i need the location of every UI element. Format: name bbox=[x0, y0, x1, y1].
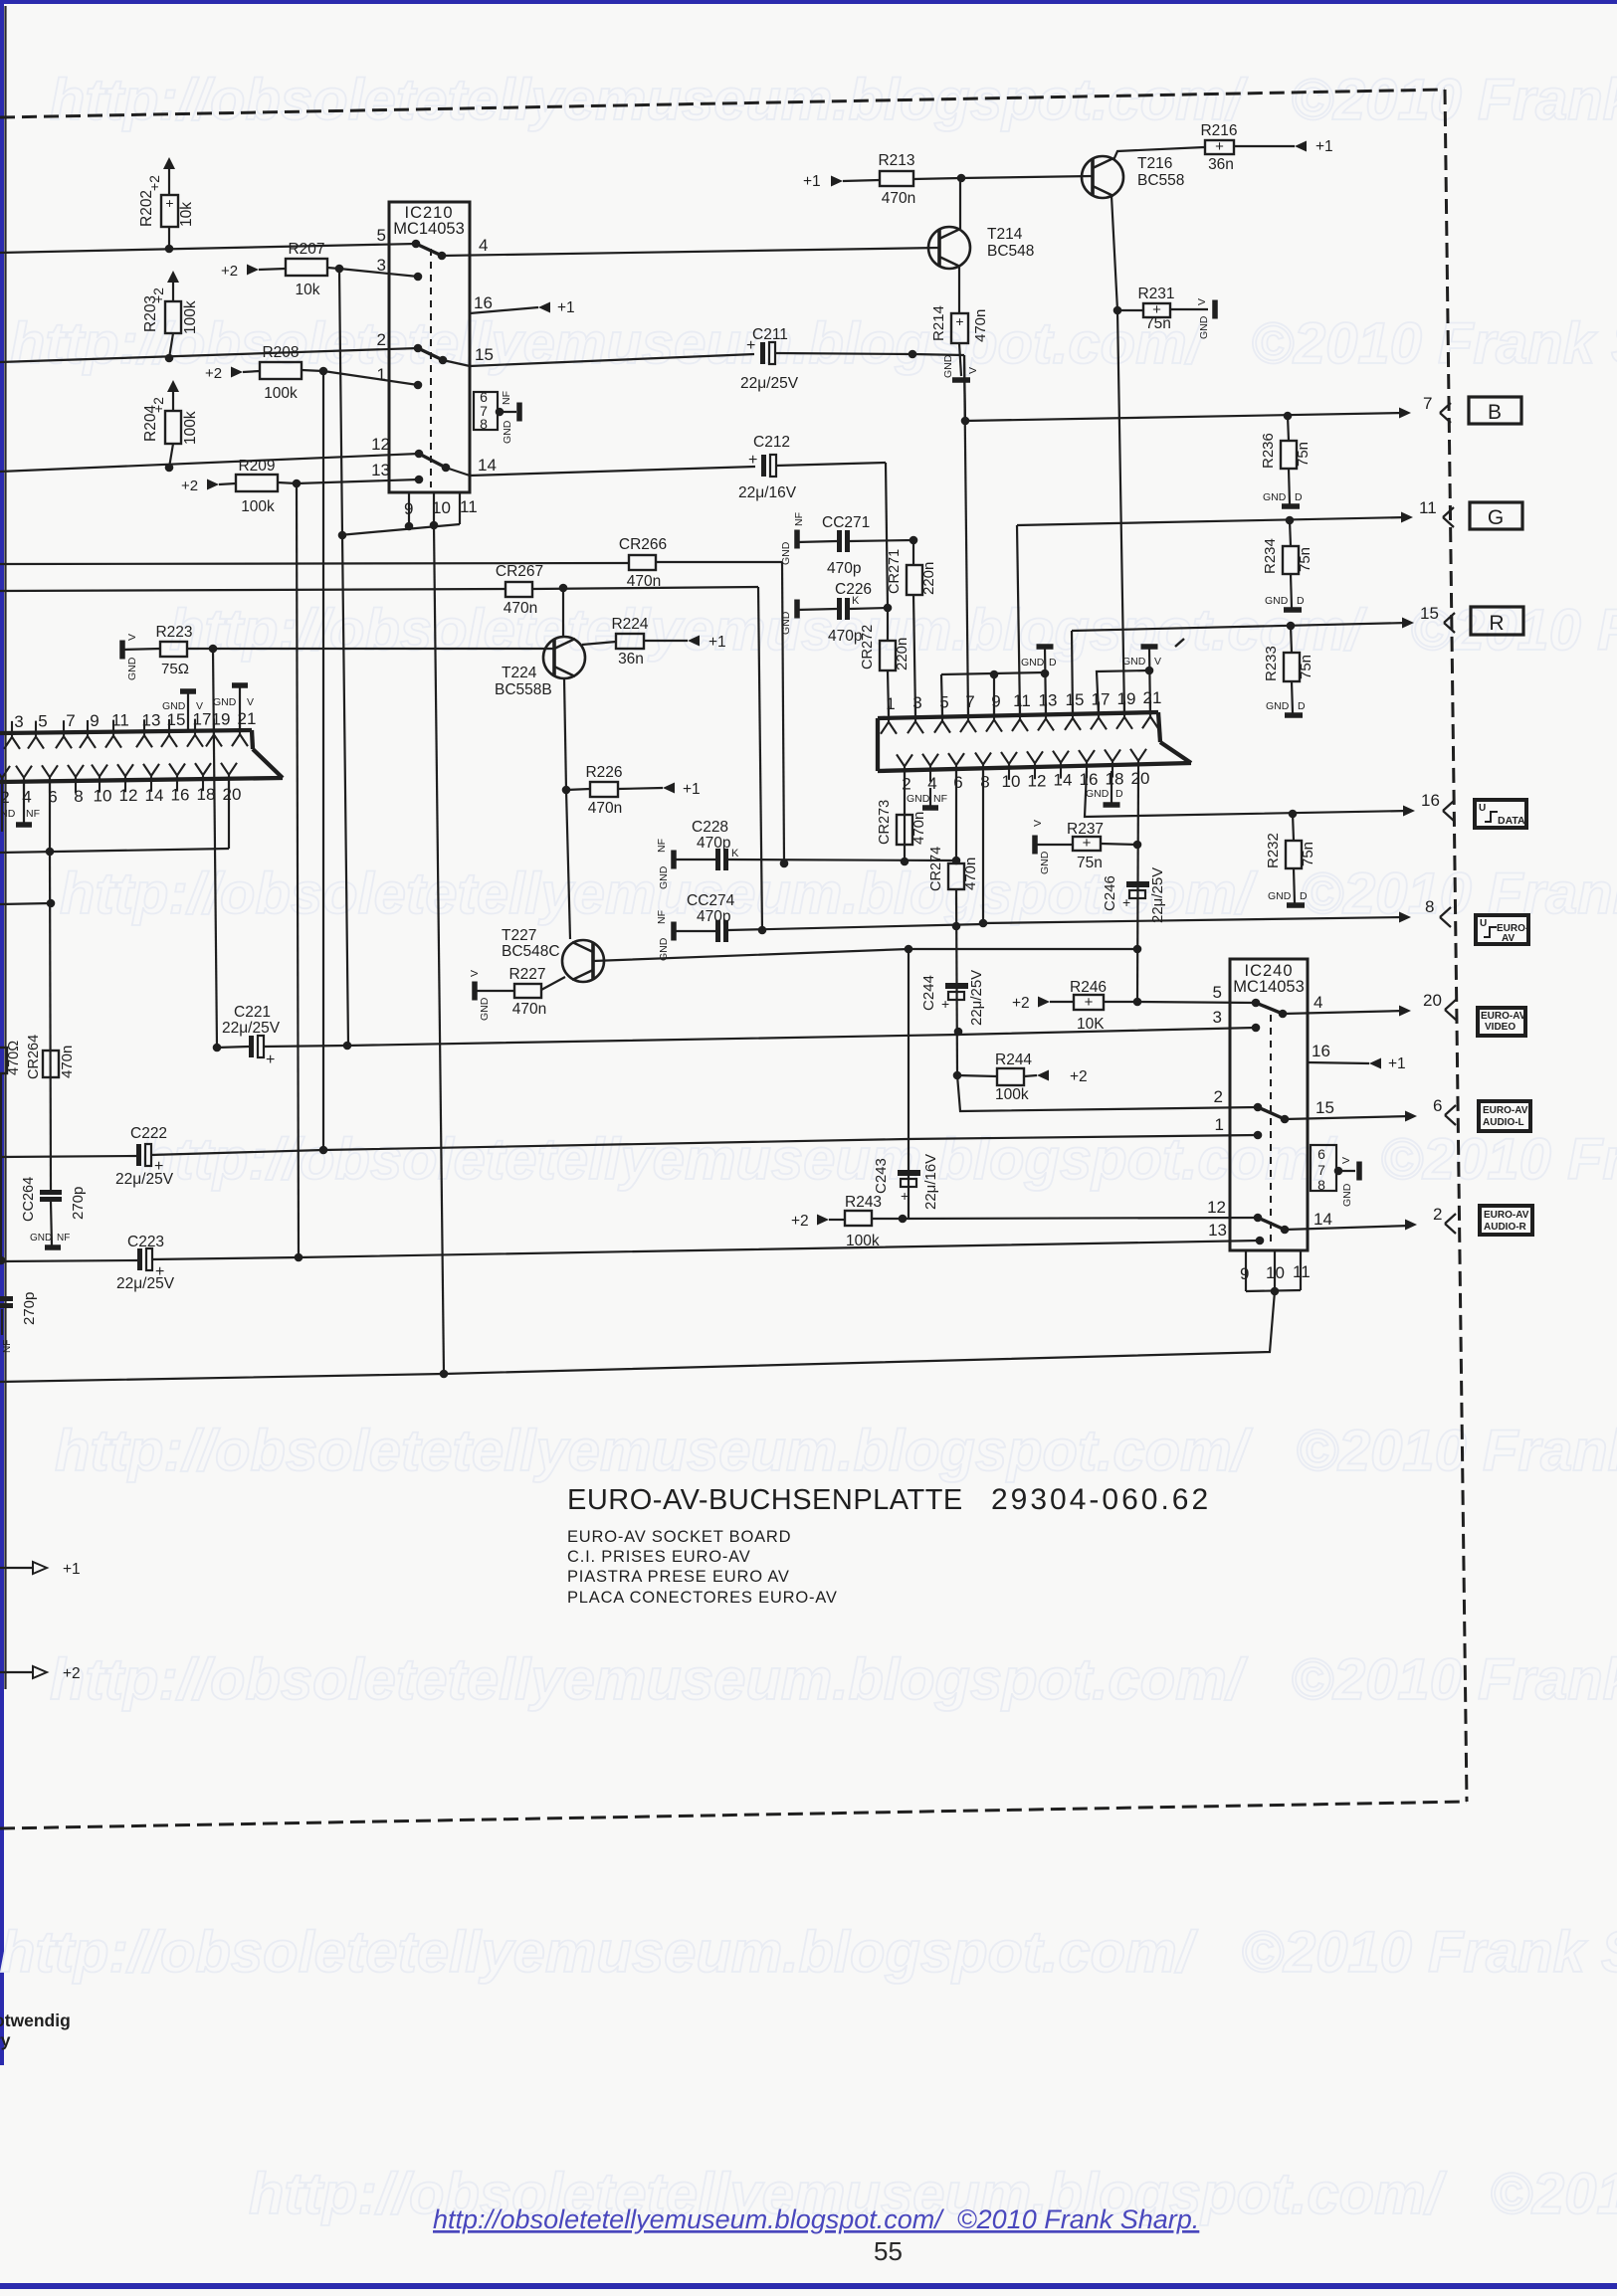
svg-text:14: 14 bbox=[145, 786, 164, 805]
svg-text:10K: 10K bbox=[1077, 1016, 1105, 1033]
svg-text:GND: GND bbox=[658, 937, 670, 961]
svg-text:R243: R243 bbox=[845, 1194, 882, 1211]
svg-text:9: 9 bbox=[404, 499, 413, 518]
label box EURO-AV AUDIO-L bbox=[1479, 1101, 1530, 1131]
ground V at pins 17-21 bbox=[1141, 644, 1158, 650]
wire T224 emitter to R224 bbox=[582, 642, 616, 645]
wire pin 8 vertical bbox=[982, 771, 984, 923]
svg-text:EURO-AV: EURO-AV bbox=[1484, 1210, 1529, 1221]
junction node pin8 on EUROAV line bbox=[979, 919, 988, 928]
svg-text:CR273: CR273 bbox=[877, 800, 893, 845]
resistor R224 bbox=[616, 634, 644, 649]
svg-text:+: + bbox=[901, 1188, 909, 1204]
connector K pin 4 bottom bbox=[16, 766, 32, 794]
resistor CR266 bbox=[629, 555, 656, 570]
connector K pin 13 top bbox=[136, 719, 152, 747]
svg-text:4: 4 bbox=[479, 236, 488, 255]
svg-text:R246: R246 bbox=[1070, 979, 1107, 996]
connector pin 7 top bbox=[960, 704, 976, 732]
svg-text:NF: NF bbox=[656, 839, 668, 853]
label box U EURO-AV bbox=[1476, 915, 1528, 944]
junction node IC240 pin10 bottom bbox=[1271, 1287, 1280, 1296]
junction node pin6 on CC274 line bbox=[952, 922, 961, 931]
page top blue border bbox=[0, 0, 1617, 4]
connector J central right step bbox=[1158, 712, 1160, 742]
svg-text:16: 16 bbox=[1080, 770, 1099, 789]
svg-text:D: D bbox=[1049, 657, 1057, 669]
connector K pin 7 top bbox=[56, 720, 72, 748]
arrow EURO-AV AUDIO-L pin 6 bbox=[1405, 1111, 1417, 1122]
connector K pin 16 bottom bbox=[169, 764, 185, 792]
tick mark near GND V bbox=[1175, 639, 1184, 647]
svg-text:3: 3 bbox=[377, 256, 386, 275]
svg-text:2: 2 bbox=[1214, 1087, 1223, 1106]
svg-text:17: 17 bbox=[1092, 689, 1111, 708]
svg-text:R233: R233 bbox=[1263, 646, 1280, 681]
svg-text:http://obsoletetellyemuseum.bl: http://obsoletetellyemuseum.blogspot.com… bbox=[0, 1920, 1617, 1985]
svg-text:12: 12 bbox=[1028, 771, 1047, 790]
svg-text:7: 7 bbox=[1423, 394, 1432, 413]
svg-text:GND: GND bbox=[658, 865, 670, 889]
wire down to B line bbox=[964, 355, 965, 421]
connector pin 16 bottom bbox=[1079, 750, 1095, 778]
svg-text:22μ/25V: 22μ/25V bbox=[116, 1275, 175, 1292]
svg-text:+1: +1 bbox=[63, 1561, 81, 1578]
wire R246 to IC240 pin 5 bbox=[1137, 1002, 1256, 1003]
svg-text:R207: R207 bbox=[288, 241, 324, 258]
svg-text:29304-060.62: 29304-060.62 bbox=[991, 1483, 1211, 1516]
svg-text:10: 10 bbox=[1002, 772, 1021, 791]
resistor R216 bbox=[1205, 140, 1234, 154]
arrow stub +2 bbox=[0, 1671, 33, 1673]
svg-text:R202: R202 bbox=[138, 190, 155, 227]
junction node CR274 top bbox=[952, 857, 961, 865]
arrow R pin 15 bbox=[1402, 618, 1414, 629]
connector K pin 9 top bbox=[80, 720, 96, 748]
svg-text:10: 10 bbox=[432, 498, 451, 517]
svg-text:14: 14 bbox=[478, 456, 497, 475]
svg-text:8: 8 bbox=[480, 416, 488, 432]
junction node x50 vertical bbox=[47, 899, 56, 908]
junction node B line pin7 bbox=[961, 417, 970, 426]
resistor R232 with ground bbox=[1293, 814, 1294, 841]
svg-text:12: 12 bbox=[371, 435, 390, 454]
svg-text:GND: GND bbox=[1039, 851, 1051, 874]
junction node left edge C223 bbox=[0, 1256, 5, 1265]
connector pin 2 bottom bbox=[897, 754, 912, 782]
wire B line bbox=[965, 413, 1405, 421]
wire T216 collector to R216 bbox=[1113, 147, 1204, 160]
svg-text:13: 13 bbox=[142, 710, 161, 729]
junction node pin3 line on pin6 vertical bbox=[954, 1028, 963, 1037]
wire cut resistor down left edge bbox=[0, 1073, 2, 1260]
svg-text:7: 7 bbox=[1317, 1162, 1325, 1178]
svg-text:+: + bbox=[1085, 994, 1094, 1011]
svg-text:NF: NF bbox=[2, 1340, 13, 1353]
wire CR271 to connector pin 3 bbox=[913, 595, 915, 715]
svg-text:15: 15 bbox=[1420, 604, 1439, 623]
svg-text:18: 18 bbox=[1106, 769, 1124, 788]
ic IC210 pins 6 7 8 box bbox=[474, 392, 498, 430]
svg-text:1: 1 bbox=[377, 365, 386, 384]
junction node R231 bbox=[1113, 306, 1122, 315]
capacitor C222 bbox=[0, 1156, 136, 1157]
svg-text:36n: 36n bbox=[618, 651, 644, 668]
svg-text:CC274: CC274 bbox=[687, 892, 735, 909]
wire T214 emitter bbox=[958, 267, 960, 313]
svg-text:100k: 100k bbox=[995, 1086, 1029, 1103]
ic IC240 pin 9 bbox=[1245, 1250, 1247, 1291]
wire bus to IC210 pin 5 bbox=[0, 244, 416, 253]
resistor R236 with ground bbox=[1288, 416, 1289, 441]
svg-text:DATA: DATA bbox=[1498, 815, 1525, 827]
svg-text:C222: C222 bbox=[130, 1125, 167, 1142]
connector pin 5 top bbox=[934, 705, 950, 733]
svg-text:otwendig: otwendig bbox=[0, 2010, 71, 2030]
svg-text:470n: 470n bbox=[882, 190, 915, 207]
svg-text:GND: GND bbox=[502, 420, 513, 444]
svg-text:5: 5 bbox=[38, 712, 47, 731]
connector K left top edge bbox=[0, 730, 252, 733]
junction node R204/bus bbox=[165, 464, 174, 473]
junction node R234 bbox=[1286, 516, 1295, 525]
svg-text:K: K bbox=[731, 848, 739, 860]
wire pin 7 vertical through to B line bbox=[964, 355, 968, 715]
svg-text:22μ/25V: 22μ/25V bbox=[968, 970, 985, 1026]
svg-text:V: V bbox=[1154, 656, 1161, 668]
svg-text:EURO-AV-BUCHSENPLATTE: EURO-AV-BUCHSENPLATTE bbox=[567, 1484, 963, 1516]
resistor R244 bbox=[957, 1075, 997, 1076]
svg-text:20: 20 bbox=[1423, 991, 1442, 1010]
svg-text:100k: 100k bbox=[264, 385, 298, 402]
svg-text:CR267: CR267 bbox=[496, 563, 543, 580]
connector K pin 11 top bbox=[105, 720, 121, 748]
wire CR266 line from left edge bbox=[0, 563, 629, 564]
svg-text:15: 15 bbox=[475, 345, 494, 364]
ic IC240 pin 10 bbox=[1274, 1250, 1276, 1291]
svg-text:8: 8 bbox=[980, 773, 989, 792]
wire C221 line to IC240 pin 3 bbox=[347, 1028, 1256, 1046]
resistor R233 with ground bbox=[1291, 626, 1292, 653]
connector K pin 20 bottom bbox=[221, 763, 237, 791]
junction node R208 vertical end bbox=[319, 1146, 328, 1155]
ic IC240 MC14053 box bbox=[1230, 959, 1308, 1250]
dashed board border right bbox=[1445, 90, 1467, 1802]
junction node R236 bbox=[1284, 412, 1293, 421]
junction node C211/CC271 branch bbox=[909, 350, 917, 359]
svg-text:R231: R231 bbox=[1137, 286, 1174, 302]
connector K pin 8 bottom bbox=[68, 765, 84, 793]
svg-text:AV: AV bbox=[1502, 933, 1515, 944]
svg-text:R227: R227 bbox=[508, 966, 545, 983]
junction node T224 collector on CR267 line bbox=[559, 584, 568, 593]
label box EURO-AV VIDEO bbox=[1478, 1008, 1525, 1036]
junction node pin9 bridge bbox=[990, 670, 999, 679]
svg-text:8: 8 bbox=[1425, 897, 1434, 916]
svg-text:1: 1 bbox=[1215, 1115, 1224, 1134]
svg-text:G: G bbox=[1488, 506, 1504, 529]
junction node R207 vertical end bbox=[343, 1042, 352, 1051]
connector K pin 10 bottom bbox=[92, 765, 107, 793]
svg-text:D: D bbox=[1295, 491, 1303, 503]
svg-text:GND: GND bbox=[1086, 788, 1110, 800]
svg-text:V: V bbox=[126, 634, 138, 641]
svg-text:GND: GND bbox=[907, 793, 930, 805]
ground V at IC240 pins 6-8 bbox=[1356, 1162, 1362, 1181]
dashed board border bottom bbox=[0, 1802, 1467, 1828]
svg-text:R244: R244 bbox=[995, 1052, 1032, 1068]
ic IC240 switch 5-4 bbox=[1256, 1003, 1283, 1014]
arrow EURO-AV pin 8 bbox=[1399, 912, 1411, 923]
wire R243 to IC240 pin 12 bbox=[903, 1218, 1258, 1219]
svg-text:VIDEO: VIDEO bbox=[1485, 1022, 1516, 1033]
svg-text:470n: 470n bbox=[59, 1046, 76, 1078]
ground D at pins 5-9-13 bbox=[1037, 644, 1054, 650]
transistor T224 BC558B bbox=[543, 637, 585, 678]
svg-text:22μ/16V: 22μ/16V bbox=[922, 1154, 939, 1210]
junction node R203/bus bbox=[165, 354, 174, 363]
svg-text:C211: C211 bbox=[752, 326, 788, 343]
svg-text:CC271: CC271 bbox=[822, 514, 870, 531]
svg-text:T227: T227 bbox=[502, 927, 536, 944]
resistor CR267 bbox=[505, 582, 532, 597]
wire K pin 6 down bbox=[49, 781, 51, 853]
wire IC240 bottom pins bbox=[1246, 1290, 1301, 1291]
svg-text:R236: R236 bbox=[1260, 433, 1277, 469]
dashed board border top bbox=[0, 90, 1445, 117]
junction node CC271/CR271 bbox=[910, 536, 918, 545]
svg-text:BC548: BC548 bbox=[987, 243, 1034, 260]
resistor R214 bbox=[951, 313, 968, 343]
wire CR266 corner down to C228 line bbox=[782, 562, 784, 863]
junction node IC210 pin7 gnd bbox=[496, 408, 505, 417]
svg-text:BC558B: BC558B bbox=[495, 681, 552, 698]
svg-text:13: 13 bbox=[1208, 1221, 1227, 1240]
svg-text:19: 19 bbox=[1117, 689, 1136, 708]
svg-text:12: 12 bbox=[119, 786, 138, 805]
transistor T227 BC548C bbox=[562, 940, 604, 982]
wire pin 2 down through CR273 bbox=[904, 771, 906, 861]
connector K pin 5 top bbox=[28, 721, 44, 749]
svg-text:C228: C228 bbox=[692, 819, 728, 836]
svg-text:MC14053: MC14053 bbox=[1233, 978, 1305, 996]
connector pin 15 top bbox=[1065, 702, 1081, 730]
svg-text:NF: NF bbox=[26, 808, 40, 820]
svg-text:GND: GND bbox=[1266, 700, 1290, 712]
svg-text:R226: R226 bbox=[585, 764, 622, 781]
resistor R203 bbox=[165, 301, 181, 333]
svg-text:+2: +2 bbox=[221, 263, 238, 280]
connector pin 17 top bbox=[1091, 701, 1107, 729]
connector K pin 14 bottom bbox=[143, 764, 159, 792]
junction node C221 left bbox=[213, 1044, 222, 1052]
svg-text:10k: 10k bbox=[178, 202, 195, 227]
svg-text:14: 14 bbox=[1314, 1210, 1332, 1229]
svg-text:CR264: CR264 bbox=[26, 1035, 42, 1079]
ic IC240 pin 11 bbox=[1300, 1250, 1302, 1290]
resistor CR271 bbox=[912, 540, 914, 565]
svg-text:75n: 75n bbox=[1297, 547, 1314, 572]
wire K pins 6-20 link to left edge bbox=[0, 849, 229, 853]
wire pin 6 down through C244 bbox=[956, 889, 957, 1075]
wire R226 junction down to T227 collector bbox=[566, 790, 570, 939]
junction node C226/CR272 bbox=[884, 604, 893, 613]
svg-text:16: 16 bbox=[1312, 1042, 1330, 1060]
wire pin 17 up to GND bridge bbox=[1097, 670, 1149, 715]
svg-text:20: 20 bbox=[1131, 769, 1150, 788]
svg-text:9: 9 bbox=[991, 692, 1000, 711]
svg-text:11: 11 bbox=[1419, 498, 1437, 517]
connector K pin 12 bottom bbox=[117, 764, 133, 792]
label box U DATA bbox=[1475, 800, 1526, 828]
svg-text:GND: GND bbox=[1265, 595, 1289, 607]
svg-text:GND: GND bbox=[162, 700, 186, 712]
resistor CR274 bbox=[955, 771, 957, 863]
connector J central bottom edge bbox=[878, 763, 1191, 771]
svg-text:NF: NF bbox=[501, 391, 512, 405]
svg-text:13: 13 bbox=[1039, 690, 1058, 709]
wire R209 junction down to C223 line bbox=[297, 483, 299, 1257]
svg-text:R213: R213 bbox=[878, 152, 914, 169]
capacitor C246 bbox=[1126, 881, 1149, 887]
svg-text:12: 12 bbox=[1207, 1198, 1226, 1217]
wire junction to T216 base bbox=[961, 176, 1093, 178]
svg-text:11: 11 bbox=[460, 497, 478, 516]
svg-text:+: + bbox=[941, 996, 949, 1012]
ic IC210 pin 11 bbox=[459, 492, 461, 524]
wire bus to IC210 pin 2 bbox=[0, 348, 418, 362]
junction node R202/bus bbox=[165, 245, 174, 254]
svg-text:+2: +2 bbox=[146, 175, 162, 191]
junction node R208 bbox=[319, 367, 328, 376]
wire pin 18 to ground D bbox=[1111, 771, 1112, 803]
svg-text:D: D bbox=[1298, 700, 1306, 712]
junction node pin20 vertical on T227 line bbox=[1133, 945, 1142, 954]
resistor R234 with ground bbox=[1290, 520, 1291, 546]
connector K pin 15 top bbox=[161, 719, 177, 747]
svg-text:GND: GND bbox=[30, 1233, 52, 1244]
ic IC210 switch 2-15 bbox=[418, 348, 443, 360]
svg-text:6: 6 bbox=[1317, 1146, 1325, 1162]
junction node CR266 on C228 line bbox=[780, 860, 789, 868]
svg-text:22μ/25V: 22μ/25V bbox=[222, 1020, 281, 1037]
svg-text:17: 17 bbox=[193, 710, 212, 729]
wire T214 collector bbox=[959, 178, 961, 229]
connector J central left edge bbox=[876, 718, 880, 771]
capacitor C244 bbox=[945, 983, 968, 989]
transistor T214 BC548 bbox=[928, 227, 970, 269]
ground V at K pin 21 bbox=[239, 687, 241, 731]
svg-text:5: 5 bbox=[1213, 983, 1222, 1002]
ground at K pin 4 bbox=[23, 781, 25, 823]
svg-text:15: 15 bbox=[167, 710, 186, 729]
svg-text:CR272: CR272 bbox=[860, 625, 876, 670]
wire K pin 20 down bbox=[228, 779, 230, 849]
page bottom blue border bbox=[0, 2283, 1617, 2289]
wire R209 to IC210 pin 13 bbox=[297, 479, 419, 483]
svg-text:BC548C: BC548C bbox=[502, 943, 560, 960]
svg-text:NF: NF bbox=[793, 512, 805, 526]
junction node R207 bbox=[335, 265, 344, 274]
wire R208 to IC210 pin 1 bbox=[323, 371, 418, 385]
svg-text:CR274: CR274 bbox=[928, 847, 944, 891]
svg-text:75Ω: 75Ω bbox=[161, 661, 189, 677]
connector pin 1 top bbox=[881, 706, 897, 734]
svg-text:+1: +1 bbox=[803, 173, 821, 190]
wire T224 down to R226 junction bbox=[564, 678, 566, 790]
wire EURO-AV 8 line bbox=[983, 917, 1405, 923]
svg-text:GND: GND bbox=[1268, 890, 1292, 902]
svg-text:http://obsoletetellyemuseum.bl: http://obsoletetellyemuseum.blogspot.com… bbox=[10, 311, 1617, 376]
wire pin 13 up to GND D bbox=[1045, 648, 1046, 715]
svg-text:CC264: CC264 bbox=[21, 1177, 37, 1222]
arrow EURO-AV AUDIO-R pin 2 bbox=[1405, 1220, 1417, 1231]
svg-text:7: 7 bbox=[66, 711, 75, 730]
junction node K pin6 link bbox=[46, 848, 55, 857]
junction node CR267 on CC274 line bbox=[758, 926, 767, 935]
svg-text:+1: +1 bbox=[557, 299, 575, 316]
svg-text:GND: GND bbox=[479, 997, 491, 1021]
page left edge line bbox=[4, 6, 6, 1689]
wire pin6 vertical corner to IC240 pin2 line bbox=[957, 1075, 1258, 1111]
svg-text:16: 16 bbox=[1421, 791, 1440, 810]
wire pin 5 up bbox=[941, 674, 942, 715]
junction node R209 bbox=[293, 479, 302, 488]
svg-text:EURO-AV: EURO-AV bbox=[1483, 1105, 1528, 1116]
svg-text:GND: GND bbox=[126, 657, 138, 680]
connector pin 18 bottom bbox=[1105, 749, 1120, 777]
svg-text:14: 14 bbox=[1054, 771, 1073, 790]
svg-text:+1: +1 bbox=[683, 781, 701, 798]
arrow B pin 7 bbox=[1399, 408, 1411, 419]
svg-text:18: 18 bbox=[197, 785, 216, 804]
wire T227 base to right bbox=[593, 949, 1137, 961]
capacitor cut at left edge bottom bbox=[0, 1296, 13, 1301]
svg-text:C221: C221 bbox=[234, 1004, 271, 1021]
junction node R213/T214/T216 bbox=[957, 174, 966, 183]
svg-text:+1: +1 bbox=[1315, 138, 1333, 155]
wire R223 junction down through connector pin 19 to C221 bbox=[213, 649, 217, 1048]
connector pin 10 bottom bbox=[1001, 752, 1017, 780]
svg-text:R: R bbox=[1489, 612, 1504, 635]
connector K pin 6 bottom bbox=[42, 765, 58, 793]
svg-text:470n: 470n bbox=[512, 1001, 546, 1018]
svg-text:+2: +2 bbox=[1070, 1068, 1088, 1085]
connector pin 3 top bbox=[908, 705, 923, 733]
svg-text:9: 9 bbox=[1240, 1264, 1249, 1283]
wire pin 16 down to DATA line bbox=[1085, 771, 1409, 817]
svg-text:R223: R223 bbox=[155, 624, 192, 641]
connector pin 11 top bbox=[1012, 703, 1028, 731]
svg-text:D: D bbox=[1115, 788, 1123, 800]
svg-text:+: + bbox=[165, 195, 173, 211]
connector pin 20 bottom bbox=[1130, 749, 1146, 777]
svg-text:C243: C243 bbox=[873, 1158, 890, 1194]
svg-text:4: 4 bbox=[927, 774, 936, 793]
svg-text:GND: GND bbox=[1263, 491, 1287, 503]
svg-text:+: + bbox=[1122, 894, 1130, 910]
svg-text:R234: R234 bbox=[1262, 538, 1279, 574]
svg-text:10: 10 bbox=[94, 787, 112, 806]
junction node pin21 gnd bridge bbox=[1145, 667, 1154, 675]
svg-text:2: 2 bbox=[377, 330, 386, 349]
wire x50 vertical down to CC264 bbox=[50, 852, 51, 1190]
svg-text:11: 11 bbox=[1293, 1262, 1311, 1281]
svg-text:C212: C212 bbox=[753, 434, 790, 451]
svg-text:R208: R208 bbox=[262, 344, 299, 361]
connector pin 4 bottom bbox=[922, 754, 938, 782]
connector pin 8 bottom bbox=[975, 753, 991, 781]
